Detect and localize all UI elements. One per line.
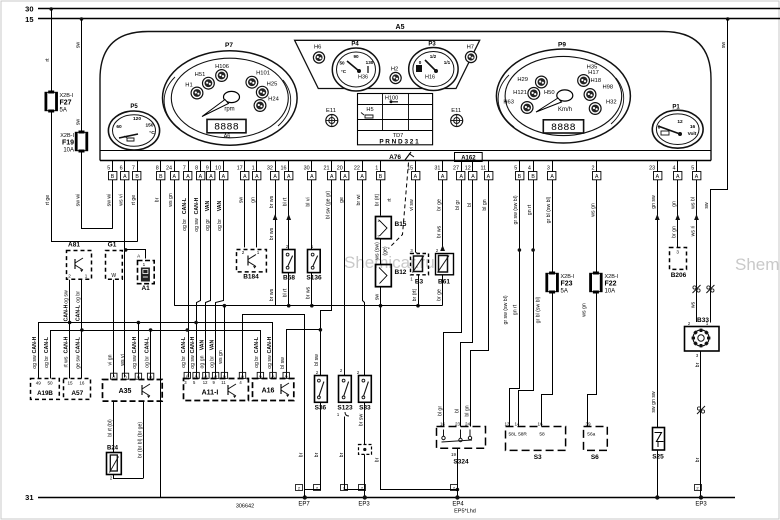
svg-text:gr sw (sw bl): gr sw (sw bl) — [503, 295, 509, 324]
indicator lamps H35 H17 H18 — [578, 65, 601, 87]
svg-text:H29: H29 — [517, 77, 528, 83]
gauge P9 speedometer — [496, 42, 630, 144]
svg-text:50: 50 — [339, 61, 345, 66]
svg-text:H51: H51 — [195, 72, 206, 78]
indicator lamp H106 — [215, 64, 229, 81]
cluster pin 16A at x=288.7 — [281, 161, 293, 181]
svg-text:20: 20 — [337, 166, 343, 172]
svg-text:A: A — [310, 174, 314, 180]
svg-text:B61: B61 — [438, 279, 450, 286]
cluster pin 31A at x=442.6 — [434, 161, 447, 181]
svg-text:B58: B58 — [283, 275, 295, 282]
junction A81/A57 CAN-L on line — [80, 328, 84, 332]
cluster pin 21A at x=331.7 — [324, 161, 336, 181]
wire sw wi pin5 to F19 joint — [106, 180, 112, 229]
svg-text:A57: A57 — [71, 390, 83, 397]
svg-text:306642: 306642 — [236, 504, 254, 510]
svg-text:G1: G1 — [108, 242, 117, 249]
svg-text:EP3: EP3 — [358, 502, 370, 508]
svg-text:90: 90 — [353, 54, 359, 59]
svg-text:br (rt): br (rt) — [412, 288, 418, 301]
svg-text:gr bl (sw bl): gr bl (sw bl) — [536, 296, 542, 323]
svg-text:og br: og br — [254, 356, 260, 368]
svg-text:S123: S123 — [337, 405, 353, 412]
wire from S36 down to EP7 joint — [305, 403, 321, 490]
svg-text:P5: P5 — [130, 104, 138, 110]
cluster pin 17A at x=244.9 — [237, 161, 249, 181]
cluster pin 3A at x=552.1 — [547, 161, 556, 181]
svg-text:A81: A81 — [68, 242, 80, 249]
svg-text:9: 9 — [206, 166, 209, 172]
wire bl sw branch to A16 — [280, 330, 321, 379]
svg-text:H36: H36 — [358, 75, 368, 81]
svg-text:og sw: og sw — [132, 355, 138, 369]
svg-text:15: 15 — [25, 15, 33, 24]
ground point EP4 / EP5 — [451, 485, 476, 515]
svg-text:B: B — [531, 174, 535, 180]
svg-text:br: br — [314, 452, 320, 457]
junction B12 wire on distribution line — [379, 304, 383, 308]
junction node pin4b wire — [531, 248, 535, 252]
svg-text:A: A — [123, 174, 127, 180]
junction on S36 wire for A16 branch — [319, 328, 323, 332]
svg-text:A16: A16 — [262, 388, 275, 395]
svg-text:CAN-H: CAN-H — [190, 336, 196, 353]
labels for A16 CAN wires — [254, 336, 273, 369]
svg-text:5: 5 — [107, 166, 110, 172]
svg-text:P3: P3 — [428, 42, 436, 48]
svg-text:11: 11 — [221, 380, 226, 385]
svg-text:S324: S324 — [453, 459, 469, 466]
svg-text:A: A — [172, 174, 176, 180]
indicator lamp H25 — [256, 82, 277, 99]
svg-text:5: 5 — [514, 166, 517, 172]
light switch S3 — [504, 422, 565, 462]
svg-text:B: B — [518, 174, 522, 180]
cluster pin 11A at x=488.3 — [480, 161, 492, 181]
svg-text:21: 21 — [324, 166, 330, 172]
svg-text:23: 23 — [649, 166, 655, 172]
wire ws gn pin24 down to distribution line — [168, 180, 175, 306]
switch S136 — [306, 244, 322, 282]
wire br (rt) pin1b down through B15/B12 — [374, 180, 393, 216]
svg-text:gn rt: gn rt — [512, 304, 518, 315]
svg-text:A: A — [360, 174, 364, 180]
sensor B206 (dashed) — [670, 248, 687, 280]
P9 needle and hub — [536, 90, 573, 113]
svg-text:30: 30 — [25, 5, 33, 14]
svg-text:bl rt: bl rt — [283, 197, 289, 206]
svg-text:S6: S6 — [591, 454, 599, 461]
connector label A162 — [455, 153, 483, 162]
svg-text:ws vi: ws vi — [119, 194, 125, 206]
cluster pin 27A at x=461.2 — [453, 161, 465, 181]
cluster pin 23A at x=657.3 — [649, 161, 662, 181]
svg-text:16: 16 — [690, 124, 696, 130]
svg-text:A162: A162 — [461, 155, 476, 161]
svg-text:12: 12 — [465, 166, 471, 172]
switch unit S324 — [437, 422, 486, 466]
svg-text:A: A — [656, 174, 660, 180]
svg-text:58L: 58L — [508, 432, 516, 438]
svg-text:ws: ws — [690, 301, 696, 308]
switch S25 — [652, 428, 664, 461]
svg-text:120: 120 — [133, 116, 141, 122]
control unit A81 (dashed) — [67, 242, 92, 280]
svg-text:H16: H16 — [425, 75, 435, 81]
svg-text:2: 2 — [592, 166, 595, 172]
wire gr bl (sw bl) pin3 through F23 to S3 pin16 — [546, 180, 553, 273]
svg-text:og br: og br — [144, 356, 150, 368]
svg-text:ge: ge — [339, 197, 345, 203]
svg-text:4: 4 — [528, 166, 531, 172]
svg-text:H101: H101 — [256, 71, 270, 77]
svg-text:A: A — [441, 174, 445, 180]
wire bl rt below B58 to line — [283, 273, 289, 306]
cluster pin 4A at x=677.7 — [673, 161, 682, 181]
svg-text:CAN-H: CAN-H — [32, 336, 38, 353]
sensor B3 (thermistor, dashed frame) — [410, 248, 428, 286]
svg-text:ws gn: ws gn — [218, 350, 224, 364]
svg-text:A: A — [487, 174, 491, 180]
switch B58 — [283, 244, 296, 282]
cluster pin 9A at x=211 — [206, 161, 215, 181]
svg-text:br: br — [155, 197, 161, 202]
svg-text:17: 17 — [237, 166, 243, 172]
svg-text:H50: H50 — [544, 90, 555, 96]
sensor B24 with measuring loop — [107, 401, 144, 481]
svg-text:6: 6 — [120, 166, 123, 172]
wire bl sw (ge gr) pin21 down to S36 — [314, 180, 331, 376]
svg-text:12: 12 — [203, 380, 208, 385]
cluster pin 10A at x=223.3 — [215, 161, 228, 181]
svg-text:bl rt (bl): bl rt (bl) — [108, 419, 114, 437]
twisted pair marks before B33 — [693, 285, 701, 293]
svg-text:A: A — [124, 374, 127, 379]
bus 30 — [25, 5, 780, 14]
svg-text:CAN-L: CAN-L — [76, 304, 82, 321]
svg-text:br wi: br wi — [356, 195, 362, 206]
svg-text:2: 2 — [242, 250, 245, 255]
CAN-H distribution line y=322.5 — [39, 323, 273, 379]
svg-text:°C: °C — [341, 69, 347, 74]
svg-text:og sw: og sw — [190, 355, 196, 369]
indicator lamp H121 / H50 — [513, 88, 555, 100]
svg-text:A76: A76 — [389, 154, 401, 161]
cluster pin 20A at x=345 — [337, 161, 349, 181]
svg-text:ge sw: ge sw — [76, 355, 82, 369]
svg-text:2: 2 — [68, 274, 71, 279]
cluster pin 15A at x=415.4 — [407, 161, 420, 181]
svg-text:49: 49 — [36, 381, 42, 386]
svg-text:56a: 56a — [587, 432, 595, 438]
svg-text:ws ri: ws ri — [690, 226, 696, 237]
wire CAN-H og sw from A81 through line to A57 pin15 — [63, 280, 69, 379]
cluster pin 8A at x=200.3 — [195, 161, 205, 181]
svg-text:31: 31 — [434, 166, 440, 172]
wire CAN-L og br from A81 through line to A57 pin16 — [76, 280, 82, 379]
svg-text:rt: rt — [387, 198, 393, 202]
svg-text:sw: sw — [704, 202, 710, 209]
A11-I ground wire to EP7 — [243, 315, 305, 490]
svg-text:3: 3 — [676, 250, 679, 255]
svg-text:°C: °C — [149, 130, 155, 136]
svg-text:sw: sw — [239, 197, 245, 204]
P9 odometer display — [543, 120, 583, 134]
wire from S25 to bus 31 — [657, 450, 659, 497]
cluster pin 5B at x=519.4 — [514, 161, 524, 181]
mechanical link from A76 to B15/B12 (dashed) — [389, 163, 409, 249]
wire br from B33 pin3 to bus 31 EP3 — [695, 351, 701, 498]
control unit A57 (dashed) — [64, 379, 91, 400]
svg-text:7: 7 — [132, 166, 135, 172]
svg-text:gr bl (sw bl): gr bl (sw bl) — [546, 196, 552, 223]
svg-text:gn: gn — [251, 197, 257, 203]
svg-text:8: 8 — [195, 166, 198, 172]
svg-text:1/2: 1/2 — [430, 54, 437, 59]
svg-text:A: A — [186, 174, 190, 180]
switch S123 — [337, 368, 353, 417]
lamp E11 right — [451, 108, 463, 127]
svg-text:P4: P4 — [351, 42, 359, 48]
wire from S123 down to EP3 joint — [339, 417, 365, 490]
svg-text:A5: A5 — [396, 24, 405, 31]
svg-text:Shemicar.ru: Shemicar.ru — [735, 255, 780, 274]
svg-text:S136: S136 — [306, 275, 322, 282]
svg-text:A: A — [330, 174, 334, 180]
P7 odometer display A6 — [207, 119, 246, 139]
svg-text:bl vi: bl vi — [306, 197, 312, 206]
svg-text:0: 0 — [419, 60, 422, 65]
svg-text:EP3: EP3 — [695, 502, 707, 508]
lamp E11 left — [326, 108, 338, 127]
svg-text:br: br — [374, 457, 380, 462]
svg-text:130: 130 — [366, 60, 374, 65]
svg-text:VAN: VAN — [217, 200, 223, 211]
svg-text:A: A — [112, 374, 115, 379]
ground point EP3 right — [695, 485, 708, 508]
wire vi sw pin15 down to B3 — [409, 180, 415, 252]
svg-text:A: A — [343, 174, 347, 180]
svg-text:br ge: br ge — [436, 199, 442, 211]
indicator lamp H32 — [589, 100, 616, 115]
indicator lamp H1 — [185, 83, 203, 99]
svg-text:sw wi: sw wi — [106, 194, 112, 207]
inline connector on S33 wire — [359, 445, 372, 455]
wire gn pin1 to B184 pin1 — [251, 180, 257, 248]
svg-text:10A: 10A — [605, 289, 616, 295]
gauge P5 — [108, 104, 159, 150]
svg-text:EP7: EP7 — [298, 502, 310, 508]
svg-text:A: A — [259, 373, 262, 378]
node on bus 15 — [80, 17, 84, 21]
indicator lamp H2 — [390, 67, 401, 84]
svg-text:30: 30 — [304, 166, 310, 172]
wire sw wi from F19 down and to pin 5 of A5 — [75, 153, 112, 229]
fuse F27 5A (X2B-I) — [45, 91, 74, 114]
indicator lamp H29 — [517, 76, 547, 88]
cluster pin 22A at x=362.1 — [354, 161, 366, 181]
node on bus 15 right — [726, 17, 730, 21]
svg-text:br gn: br gn — [672, 226, 678, 238]
wire ws bl / ws ri pin5 to B33 pin 2 — [690, 180, 699, 322]
cluster pin 7B at x=137.1 — [132, 161, 141, 181]
wire br ws below S136 to line — [306, 273, 312, 306]
svg-text:bl gn: bl gn — [482, 199, 488, 210]
wire br ge below B61 to line end — [436, 275, 442, 306]
svg-text:bl gr: bl gr — [437, 406, 443, 416]
junction node on pin6 wire for A1 branch — [124, 248, 128, 252]
svg-text:br sw: br sw — [359, 414, 365, 427]
svg-text:bl gn: bl gn — [464, 405, 470, 416]
svg-text:vi gn: vi gn — [108, 354, 114, 365]
svg-text:rt ws: rt ws — [63, 356, 69, 367]
svg-text:P9: P9 — [558, 42, 566, 49]
wire bl vi pin30 to S136 — [306, 180, 312, 250]
svg-text:8888: 8888 — [551, 123, 576, 134]
svg-text:rt ge: rt ge — [45, 195, 51, 205]
cluster pin 7A at x=188 — [183, 161, 192, 181]
svg-text:A: A — [414, 174, 418, 180]
wire bl pin12 to S324 pin23 — [454, 180, 473, 427]
control unit A11-I (dashed) — [184, 372, 249, 400]
svg-text:H25: H25 — [267, 82, 278, 88]
svg-text:CAN-L: CAN-L — [144, 336, 150, 353]
indicator lamp H6 — [313, 45, 324, 64]
CAN-L distribution line y=330 — [51, 331, 261, 379]
wire br ge pin31 down to B61 — [436, 180, 445, 251]
svg-text:W: W — [111, 273, 116, 279]
indicator lamp H63 — [503, 100, 533, 114]
svg-text:og br: og br — [182, 219, 188, 231]
P7 needle and hub — [202, 91, 240, 116]
svg-text:H18: H18 — [591, 78, 602, 84]
indicator lamp H101 — [246, 71, 270, 89]
svg-text:rt: rt — [45, 58, 51, 62]
svg-text:vi sw: vi sw — [409, 199, 415, 211]
svg-text:Km/h: Km/h — [558, 107, 572, 113]
svg-text:VAN: VAN — [200, 339, 206, 350]
warning symbol table (H100 / H5 / TD7 PRND321) — [357, 94, 432, 146]
ground point EP3 left — [341, 485, 371, 508]
svg-text:F27: F27 — [60, 100, 72, 107]
indicator lamp H24 — [254, 97, 279, 112]
svg-text:32: 32 — [267, 166, 273, 172]
wire sw below B12 through line to EP4 — [374, 287, 457, 490]
svg-text:16: 16 — [281, 166, 287, 172]
indicator lamp H51 — [195, 72, 215, 89]
wire VAN og gr pin9 to A11-I — [205, 180, 211, 378]
svg-text:bl sw (ge gr): bl sw (ge gr) — [326, 190, 332, 219]
junction A11-I CAN-L — [186, 328, 190, 332]
svg-text:sw: sw — [75, 119, 81, 126]
svg-text:og gn: og gn — [200, 355, 206, 368]
wire below connector to bus 31 — [364, 454, 366, 497]
svg-text:br: br — [339, 452, 345, 457]
svg-text:A6: A6 — [224, 134, 231, 140]
svg-text:B: B — [159, 174, 163, 180]
svg-text:15: 15 — [67, 381, 73, 386]
control unit A19B (dashed) — [31, 379, 60, 400]
svg-text:gn: gn — [672, 201, 678, 207]
wire bl gn pin11 to S324 pin24 — [464, 180, 488, 427]
cluster pin 2A at x=596.7 — [592, 161, 601, 181]
svg-text:A: A — [595, 174, 599, 180]
svg-text:27: 27 — [453, 166, 459, 172]
wire br pin8 down to bus 31 — [155, 180, 161, 498]
svg-text:5A: 5A — [561, 289, 568, 295]
svg-text:A: A — [471, 174, 475, 180]
svg-text:A19B: A19B — [37, 390, 53, 397]
svg-text:1: 1 — [375, 166, 378, 172]
cluster pin 32A at x=275.1 — [267, 161, 279, 181]
junction A81/A57 CAN-H on line — [68, 321, 72, 325]
control unit A35 (dashed) — [103, 373, 163, 401]
svg-text:br: br — [695, 362, 701, 367]
svg-text:br ws: br ws — [269, 288, 275, 301]
svg-text:B3: B3 — [415, 279, 424, 286]
svg-text:EP5*Lhd: EP5*Lhd — [454, 509, 476, 515]
svg-text:S25: S25 — [652, 454, 664, 461]
labels for A11-I CAN wires — [181, 336, 215, 369]
wire bl rt pin16 to B58 — [283, 180, 292, 250]
riser A35 CAN-L — [144, 330, 150, 379]
svg-text:X2B-I: X2B-I — [60, 133, 74, 139]
svg-text:F22: F22 — [605, 281, 617, 288]
svg-text:br ws: br ws — [436, 225, 442, 238]
sensor B12 — [376, 265, 407, 287]
wire CAN-H og sw pin8b to A11-I — [194, 180, 200, 378]
junction B12-wire joins EP4 drop — [456, 488, 460, 492]
wire sw pin17 to B184 pin2 — [239, 180, 245, 248]
svg-text:A11-I: A11-I — [202, 390, 219, 397]
wire branch to component A1 — [126, 250, 146, 259]
svg-text:11: 11 — [480, 166, 486, 172]
wire from S324 pin19 to bus 31 EP4 — [457, 448, 459, 497]
svg-text:og br: og br — [76, 291, 82, 303]
indicator lamp H98 — [584, 85, 613, 101]
riser A35 CAN-H — [132, 323, 138, 380]
svg-text:A35: A35 — [119, 388, 132, 395]
svg-text:A: A — [255, 174, 259, 180]
svg-text:H6: H6 — [314, 45, 321, 51]
svg-text:A: A — [149, 374, 152, 379]
svg-text:H5: H5 — [366, 107, 373, 113]
component A1 (display module) — [138, 261, 155, 293]
svg-text:H121: H121 — [513, 90, 527, 96]
svg-text:CAN-H: CAN-H — [267, 336, 273, 353]
gauge panel polygon (P4/P3 surround) — [295, 40, 480, 88]
svg-text:sw: sw — [75, 42, 81, 49]
svg-text:A1: A1 — [141, 285, 150, 292]
svg-text:og sw: og sw — [32, 355, 38, 369]
svg-text:br: br — [695, 457, 701, 462]
svg-text:P R N D 3 2 1: P R N D 3 2 1 — [379, 139, 419, 146]
svg-text:Volt: Volt — [688, 131, 697, 137]
svg-text:X2B-I: X2B-I — [60, 93, 74, 99]
switch S6 — [584, 422, 608, 462]
svg-text:16: 16 — [79, 381, 85, 386]
svg-text:H2: H2 — [391, 67, 398, 73]
ground node S25 — [655, 495, 659, 499]
svg-text:rpm: rpm — [224, 107, 234, 113]
junction A11-I CAN-H — [194, 321, 198, 325]
svg-text:ws gn: ws gn — [591, 203, 597, 217]
svg-text:ws gn: ws gn — [168, 193, 174, 207]
cluster pin 1B at x=380.5 — [375, 161, 385, 181]
svg-text:br ws: br ws — [269, 195, 275, 208]
svg-text:1/1: 1/1 — [444, 60, 451, 65]
